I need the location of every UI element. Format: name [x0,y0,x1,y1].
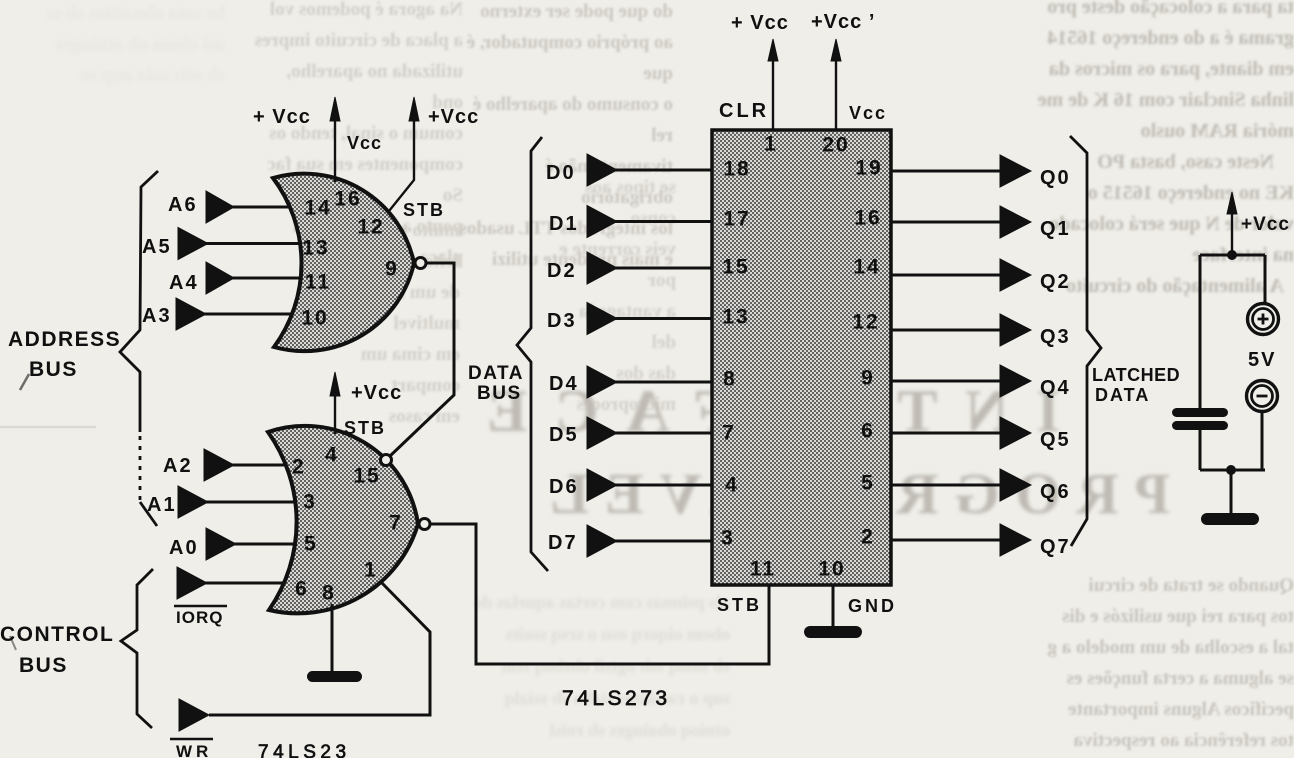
svg-text:9: 9 [861,367,875,390]
bus tap arrow D7 [587,525,617,557]
node junction at supply top [1227,250,1237,260]
bus tap arrow Q0 [1000,155,1031,187]
label D2 [547,260,577,282]
svg-text:11: 11 [305,271,331,294]
svg-text:12: 12 [357,216,384,239]
svg-text:A0: A0 [169,537,199,559]
label LATCHED DATA [1092,365,1180,405]
wire D5 to IC pin 7 [615,432,712,435]
svg-text:Q4: Q4 [1040,377,1071,399]
label WR with overline [176,742,212,758]
wire A0 to gate U1B pin 5 [234,543,308,546]
wire bottom rail to ground [1230,470,1233,513]
wire A5 to gate U1A pin 13 [206,242,312,245]
wire D6 to IC pin 4 [615,484,712,487]
svg-text:10: 10 [818,558,845,581]
ground (supply) [1201,513,1259,525]
bus tap arrow A5 [178,228,208,260]
label STB (IC pin 11) [717,595,762,615]
svg-text:Q2: Q2 [1040,271,1071,293]
bus tap arrow D0 [587,154,617,186]
svg-text:Vcc: Vcc [347,133,382,153]
label GND (IC pin 10) [848,596,897,616]
IC pin number 2 [861,526,875,549]
power +Vcc arrow for gate U1B STB pin 4 [330,372,340,434]
gate U1A pin number 11 [305,271,331,294]
wire IORQ to gate U1B pin 6 [205,582,306,585]
svg-text:12: 12 [852,311,879,334]
svg-text:A3: A3 [142,305,172,327]
svg-text:A1: A1 [147,494,177,516]
label ADDRESS BUS [8,328,121,381]
svg-text:16: 16 [334,188,361,211]
svg-text:STB: STB [403,200,445,220]
svg-text:16: 16 [854,207,881,230]
label D3 [547,310,577,332]
bus tap arrow Q6 [1000,469,1031,501]
svg-text:2: 2 [292,456,306,479]
svg-text:D5: D5 [549,424,579,446]
svg-text:A6: A6 [168,194,198,216]
IC pin number 7 [722,422,736,445]
svg-text:BUS: BUS [477,383,522,404]
svg-text:74LS273: 74LS273 [562,687,671,710]
svg-text:D7: D7 [548,532,578,554]
label STB gate U1B [344,418,386,438]
label 5V [1248,349,1276,371]
bus tap arrow Q4 [1000,365,1031,397]
svg-text:8: 8 [723,368,737,391]
svg-text:13: 13 [302,237,329,260]
label A4 [169,272,199,294]
wire supply top rail [1200,254,1265,257]
label CLR [719,100,769,122]
wire D0 to IC pin 18 [615,169,712,172]
bus tap arrow Q2 [1000,259,1031,291]
wire capacitor to bottom rail [1199,430,1202,470]
label Q3 [1040,326,1071,348]
bus tap arrow A6 [206,191,234,223]
bus tap arrow A4 [206,262,234,294]
label D5 [549,424,579,446]
wire supply bottom rail [1200,469,1265,472]
label A0 [169,537,199,559]
svg-text:D0: D0 [546,162,576,184]
svg-text:D2: D2 [547,260,577,282]
svg-text:14: 14 [853,256,880,279]
wire battery negative to bottom rail [1261,412,1264,470]
gate U1B pin number 7 [389,512,403,535]
address bus brace [120,171,158,526]
gate U1B strobe bubble pin 15 [381,455,392,466]
label Q2 [1040,271,1071,293]
label Q4 [1040,377,1071,399]
bus tap arrow D4 [587,366,617,398]
svg-text:4: 4 [725,474,739,497]
gate U1A pin number 12 [357,216,384,239]
gate U1B pin number 5 [304,533,318,556]
gate U1B pin number 2 [292,456,306,479]
label A2 [163,455,193,477]
svg-text:STB: STB [344,418,386,438]
ground (IC pin 10) [804,626,862,638]
bus tap arrow IORQ [177,567,207,599]
wire gate U1B pin 8 to ground [331,604,334,671]
label Q0 [1040,167,1071,189]
svg-text:IORQ: IORQ [176,608,223,627]
label Q1 [1040,218,1071,240]
svg-text:+ Vcc: + Vcc [731,12,789,34]
IC pin number 17 [723,208,750,231]
svg-text:4: 4 [325,444,339,467]
wire IC pin 16 to Q1 [891,221,1002,224]
svg-text:+Vcc: +Vcc [351,382,402,404]
power +Vcc arrow IC pin 1 [768,39,778,130]
capacitor C1 plate top [1172,408,1228,417]
svg-text:18: 18 [723,158,750,181]
svg-text:15: 15 [722,256,749,279]
wire IC pin 12 to Q3 [891,329,1002,332]
control bus brace [121,569,153,728]
wire gate U1B pin 7 to IC STB pin 11 [430,524,769,664]
gate U1B pin number 6 [295,578,309,601]
bus tap arrow Q3 [1000,314,1031,346]
wire A4 to gate U1A pin 11 [232,277,312,280]
svg-text:6: 6 [295,578,309,601]
label D0 [546,162,576,184]
svg-text:GND: GND [848,596,897,616]
svg-text:14: 14 [304,197,331,220]
wire D2 to IC pin 15 [615,267,712,270]
label A6 [168,194,198,216]
svg-text:A2: A2 [163,455,193,477]
gate U1A pin number 13 [302,237,329,260]
gate U1A pin number 16 [334,188,361,211]
label Q6 [1040,481,1071,503]
svg-text:ADDRESS: ADDRESS [8,328,121,351]
IC pin number 20 [822,134,849,157]
IC pin number 9 [861,367,875,390]
bus tap arrow D5 [587,417,617,449]
svg-text:3: 3 [303,491,317,514]
label +Vcc' (IC pin 20) [811,11,875,33]
label IORQ with overline [176,608,223,627]
wire IC pin 6 to Q5 [891,432,1002,435]
svg-text:1: 1 [764,133,778,156]
bus tap arrow D6 [587,469,617,501]
wire IC pin 5 to Q6 [891,484,1002,487]
bus tap arrow Q7 [1000,524,1031,556]
gate U1A 74LS23 body [273,174,414,352]
wire top rail to battery positive [1264,255,1267,303]
label STB gate U1A [403,200,445,220]
svg-text:11: 11 [750,558,776,581]
svg-text:+Vcc ’: +Vcc ’ [811,11,875,33]
IC pin number 19 [855,157,882,180]
svg-text:CONTROL: CONTROL [0,623,114,646]
label +Vcc (upper right) [428,106,479,128]
svg-text:WR: WR [176,742,212,758]
IC pin number 8 [723,368,737,391]
wire D3 to IC pin 13 [615,317,712,320]
wire IC pin 19 to Q0 [891,170,1002,173]
bus tap arrow D3 [587,303,617,335]
svg-text:DATA: DATA [468,363,524,384]
wire A3 to gate U1A pin 10 [204,313,312,316]
svg-text:15: 15 [353,465,380,488]
svg-text:13: 13 [722,306,749,329]
svg-text:Vcc: Vcc [849,103,887,123]
data bus brace [517,137,548,571]
bus tap arrow A2 [204,449,234,481]
IC pin number 10 [818,558,845,581]
svg-text:+ Vcc: + Vcc [253,106,311,128]
IC U2 74LS273 body [712,130,891,585]
bus tap arrow D2 [587,252,617,284]
label 74LS273 [562,687,671,710]
IC pin number 18 [723,158,750,181]
bus tap arrow WR [179,699,209,731]
label A1 [147,494,177,516]
gate U1B pin number 1 [364,559,378,582]
IC pin number 6 [861,420,875,443]
svg-text:1: 1 [364,559,378,582]
wire D1 to IC pin 17 [615,220,712,223]
svg-text:D6: D6 [549,476,579,498]
label D1 [549,213,579,235]
label A3 [142,305,172,327]
svg-text:10: 10 [301,307,328,330]
battery B1 positive terminal [1248,304,1279,335]
svg-text:5: 5 [861,472,875,495]
svg-text:A4: A4 [169,272,199,294]
IC pin number 15 [722,256,749,279]
gate U1B pin number 3 [303,491,317,514]
latched data brace [1070,136,1101,546]
bus tap arrow D1 [587,206,617,238]
IC pin number 3 [721,527,735,550]
svg-text:+Vcc: +Vcc [1241,214,1290,235]
wire D4 to IC pin 8 [615,381,712,384]
gate U1B pin number 4 [325,444,339,467]
wire D7 to IC pin 3 [615,540,712,543]
svg-text:D4: D4 [549,373,579,395]
label Q7 [1040,536,1071,558]
bus tap arrow Q1 [1000,206,1031,238]
power +Vcc arrow for gate U1A pin 16 [330,97,340,182]
label DATA BUS [468,363,524,404]
svg-text:8: 8 [322,582,336,605]
IC pin number 1 [764,133,778,156]
svg-text:9: 9 [385,258,399,281]
svg-text:LATCHED: LATCHED [1092,365,1180,385]
svg-text:A5: A5 [142,236,172,258]
power +Vcc arrow (supply) [1227,192,1237,255]
gate U1B 74LS23 body [268,426,418,614]
gate U1B pin number 8 [322,582,336,605]
wire top rail to capacitor [1199,255,1202,409]
label Vcc (IC pin 20) [849,103,887,123]
svg-text:Q7: Q7 [1040,536,1071,558]
svg-text:Q5: Q5 [1040,429,1071,451]
IC pin number 12 [852,311,879,334]
label + Vcc (IC pin 1) [731,12,789,34]
bus tap arrow A3 [176,298,206,330]
svg-text:74LS23: 74LS23 [258,742,351,758]
label A5 [142,236,172,258]
svg-text:BUS: BUS [19,654,68,677]
svg-text:D3: D3 [547,310,577,332]
svg-text:Q6: Q6 [1040,481,1071,503]
bus tap arrow A1 [178,486,208,518]
label Q5 [1040,429,1071,451]
wire IC pin 14 to Q2 [891,274,1002,277]
svg-text:5: 5 [304,533,318,556]
label +Vcc (supply) [1241,214,1290,235]
label + Vcc (upper left) [253,106,311,128]
svg-text:DATA: DATA [1095,385,1150,405]
label D7 [548,532,578,554]
gate U1A pin number 10 [301,307,328,330]
IC pin number 13 [722,306,749,329]
wire IC pin 2 to Q7 [891,539,1002,542]
svg-text:D1: D1 [549,213,579,235]
svg-text:19: 19 [855,157,882,180]
wire IC pin 10 to ground [832,586,835,626]
wire A6 to gate U1A pin 14 [232,206,312,209]
ground (gate U1B pin 8) [307,671,362,682]
IC pin number 11 [750,558,776,581]
IC pin number 16 [854,207,881,230]
svg-text:20: 20 [822,134,849,157]
label CONTROL BUS [0,623,114,677]
power +Vcc' arrow IC pin 20 [831,39,841,130]
label 74LS23 [258,742,351,758]
wire WR to gate U1B pin 1 [209,582,430,715]
gate U1A output bubble pin 9 [415,258,426,269]
svg-text:Q1: Q1 [1040,218,1071,240]
svg-text:3: 3 [721,527,735,550]
power +Vcc arrow for gate U1A STB pin 12 [389,97,419,211]
wire A1 to gate U1B pin 3 [206,501,308,504]
gate U1A pin number 9 [385,258,399,281]
label +Vcc (gate U1B) [351,382,402,404]
svg-text:2: 2 [861,526,875,549]
gate U1B output bubble pin 7 [419,519,430,530]
svg-text:STB: STB [717,595,762,615]
label D4 [549,373,579,395]
IC pin number 5 [861,472,875,495]
gate U1A pin number 14 [304,197,331,220]
IC pin number 4 [725,474,739,497]
svg-text:17: 17 [723,208,750,231]
IC pin number 14 [853,256,880,279]
svg-text:CLR: CLR [719,100,769,122]
wire A2 to gate U1B pin 2 [232,464,308,467]
bus tap arrow A0 [206,528,236,560]
svg-text:Q0: Q0 [1040,167,1071,189]
battery B1 negative terminal [1247,381,1278,412]
svg-text:+Vcc: +Vcc [428,106,479,128]
svg-text:BUS: BUS [29,358,78,381]
svg-text:6: 6 [861,420,875,443]
svg-text:Q3: Q3 [1040,326,1071,348]
label D6 [549,476,579,498]
capacitor C1 plate bottom [1172,421,1228,430]
bus tap arrow Q5 [1000,417,1031,449]
node junction at supply bottom [1226,465,1236,475]
gate U1B pin number 15 [353,465,380,488]
wire gate U1A pin 9 to gate U1B pin 15 [390,263,454,456]
label Vcc at gate U1A pin 16 [347,133,382,153]
wire IC pin 9 to Q4 [891,380,1002,383]
svg-text:5V: 5V [1248,349,1276,371]
svg-text:7: 7 [389,512,403,535]
svg-text:7: 7 [722,422,736,445]
